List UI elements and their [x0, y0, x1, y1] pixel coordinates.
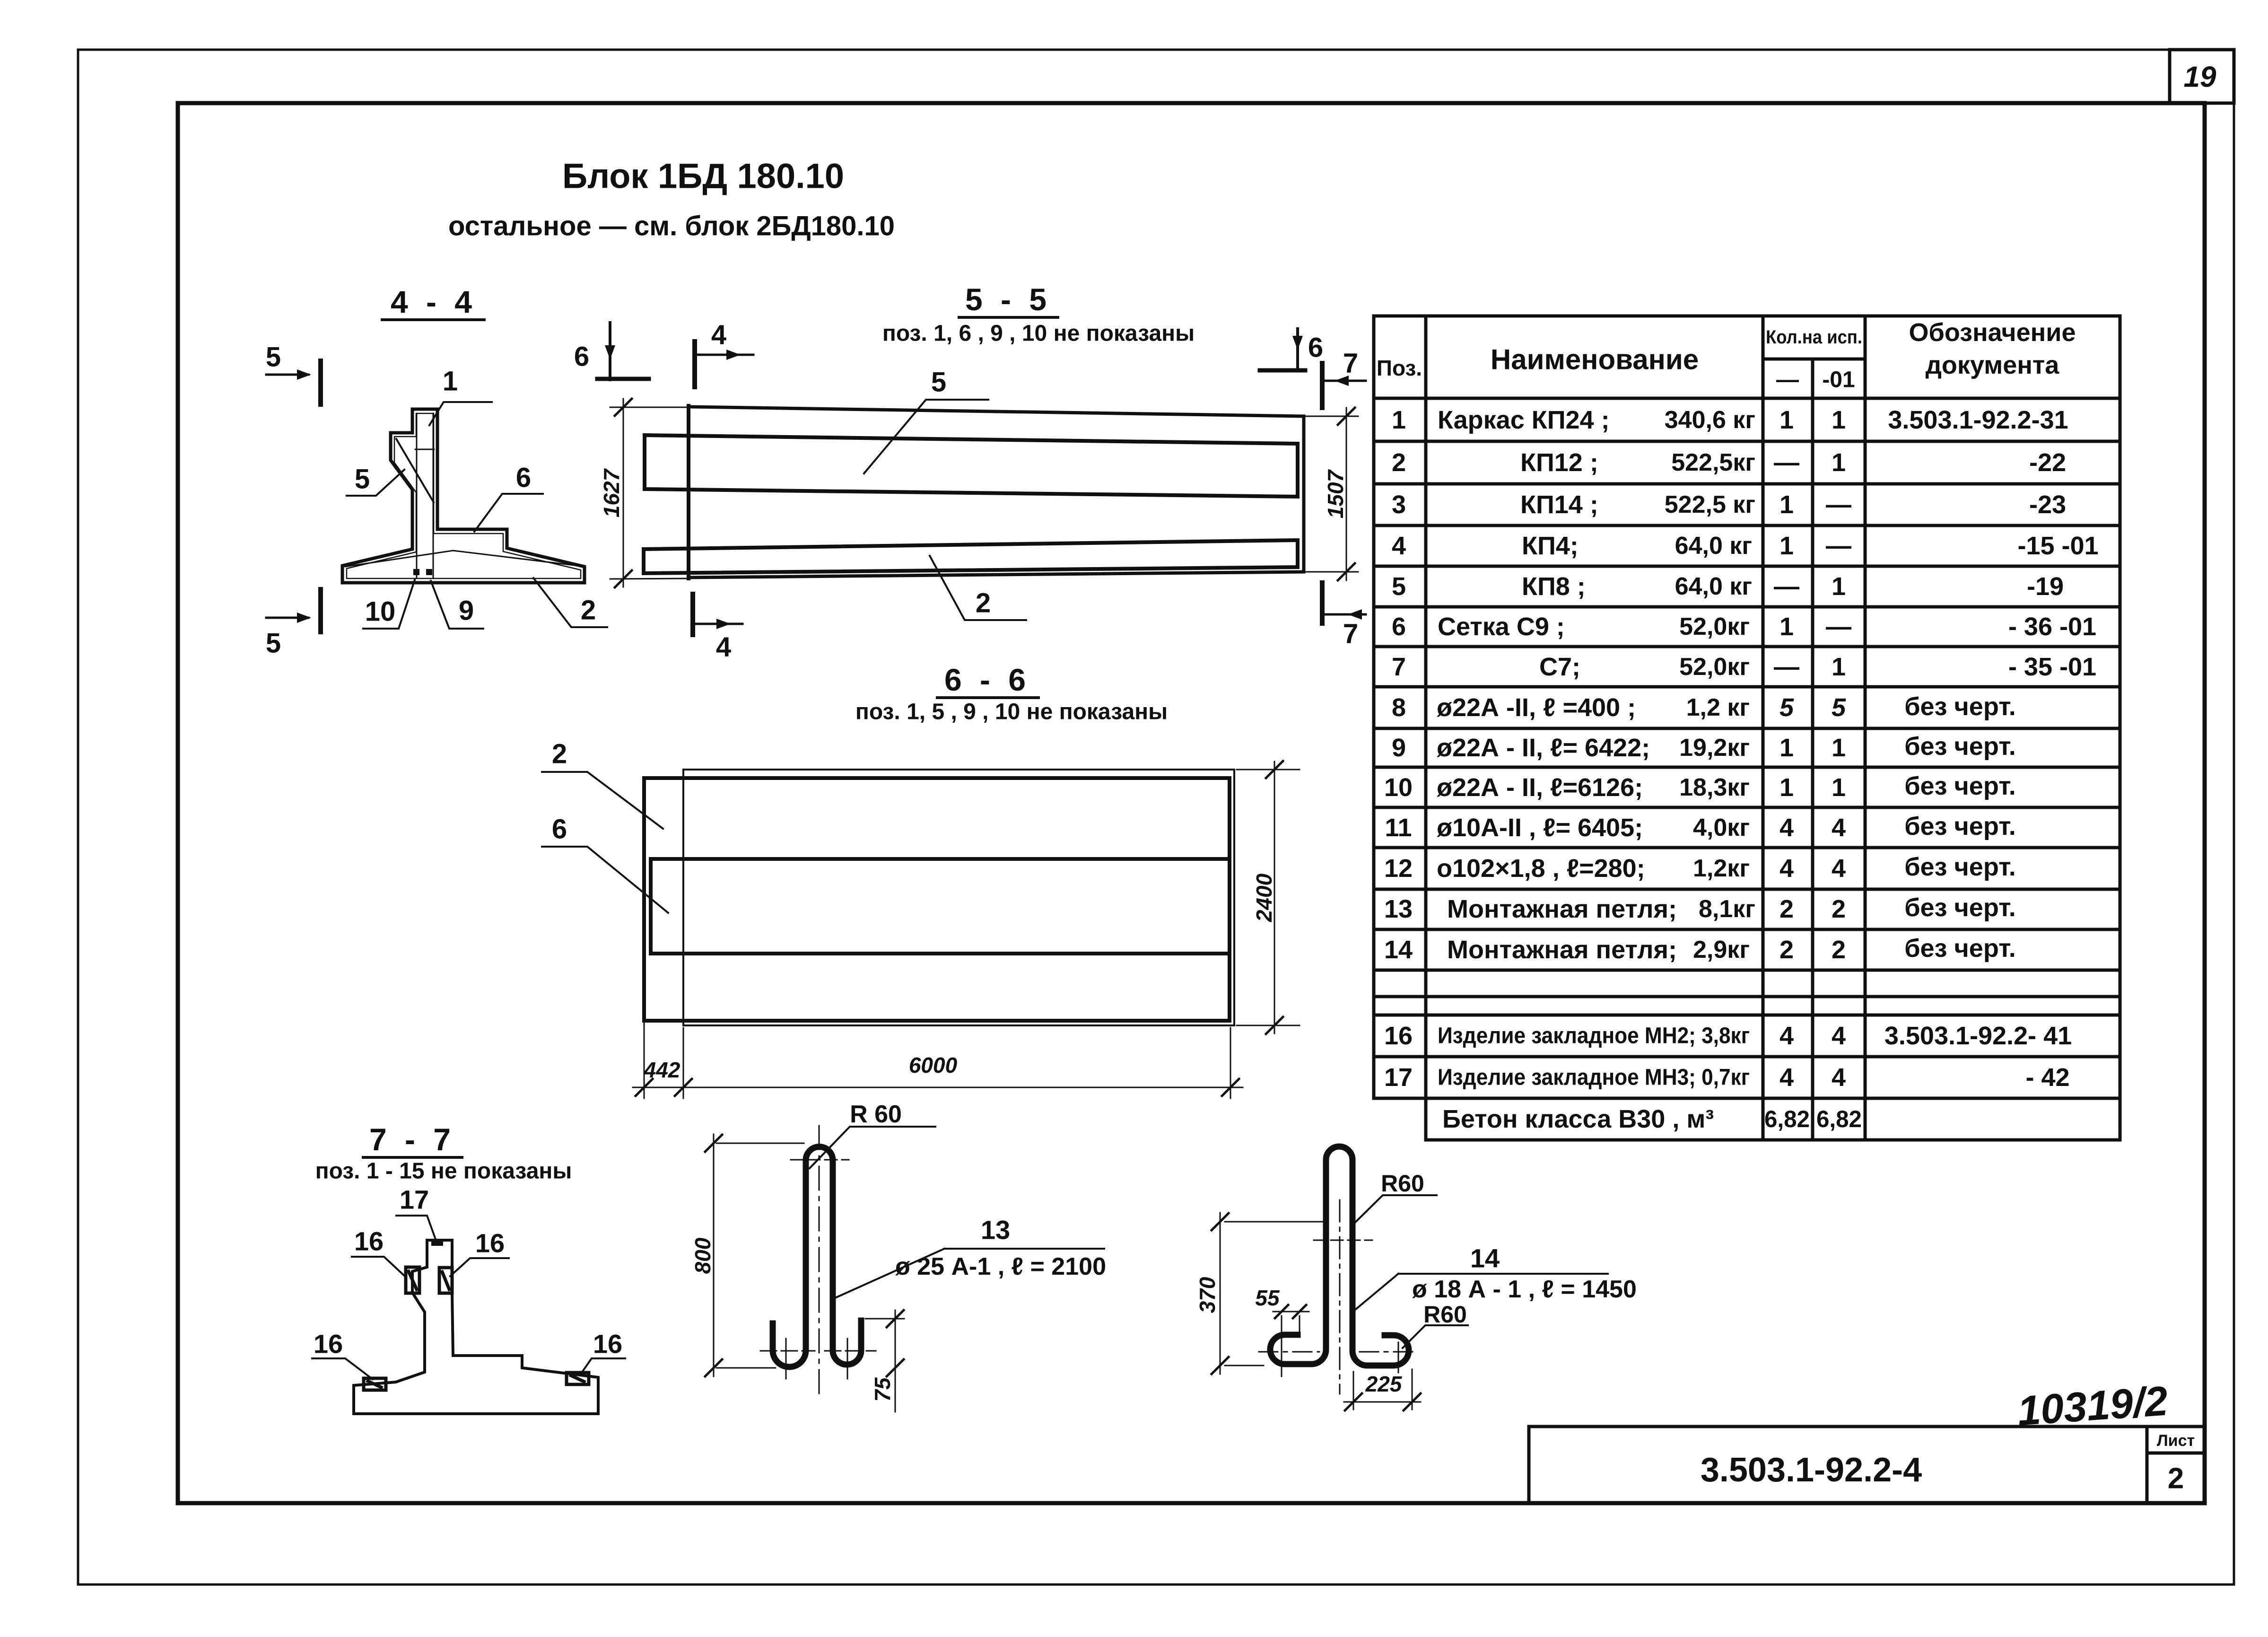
dimension 225 [1344, 1369, 1421, 1410]
svg-text:2: 2 [1780, 936, 1794, 964]
view 4-4 base ridge line [345, 551, 582, 567]
dimension 370 [1212, 1213, 1324, 1374]
view 5-5 title underline [959, 316, 1058, 319]
svg-text:2: 2 [976, 588, 991, 619]
svg-text:Поз.: Поз. [1377, 356, 1422, 380]
svg-text:64,0 кг: 64,0 кг [1675, 573, 1752, 600]
svg-text:6: 6 [516, 463, 531, 493]
title block divider [2146, 1427, 2149, 1503]
row line 7 [1374, 685, 2120, 689]
svg-text:16: 16 [354, 1226, 384, 1256]
svg-text:6,82: 6,82 [1816, 1106, 1862, 1132]
svg-text:14: 14 [1384, 936, 1413, 964]
section mark 5 top [266, 342, 321, 405]
view 5-5 lower bar poz2 [644, 540, 1298, 573]
dimension 2400 [1237, 761, 1300, 1034]
svg-text:2: 2 [2168, 1462, 2184, 1495]
svg-text:КП12 ;: КП12 ; [1520, 448, 1598, 477]
view 6-6 body bold rect [644, 778, 1230, 1021]
svg-text:—: — [1826, 532, 1851, 560]
view 6-6 middle band poz6 [651, 859, 1228, 954]
svg-text:—: — [1774, 653, 1799, 681]
row line 4 [1374, 565, 2120, 568]
svg-text:3.503.1-92.2- 41: 3.503.1-92.2- 41 [1884, 1022, 2072, 1050]
svg-text:5: 5 [1832, 693, 1846, 722]
svg-text:800: 800 [690, 1237, 715, 1274]
svg-text:Каркас КП24 ;: Каркас КП24 ; [1438, 406, 1610, 434]
svg-text:18,3кг: 18,3кг [1679, 774, 1750, 801]
title block Лист divider [2147, 1452, 2205, 1455]
svg-text:1: 1 [443, 366, 458, 397]
svg-text:Монтажная петля;: Монтажная петля; [1447, 936, 1677, 964]
svg-text:4: 4 [1780, 814, 1794, 842]
table left edge [1372, 316, 1376, 1098]
svg-text:13: 13 [1384, 895, 1413, 923]
row line 14 [1374, 969, 2120, 972]
svg-text:1: 1 [1832, 572, 1846, 601]
svg-text:1: 1 [1780, 613, 1794, 641]
lifting loop 13 body [773, 1147, 861, 1367]
section mark 7 bottom [1322, 583, 1366, 649]
svg-text:5: 5 [266, 342, 281, 373]
row line 3 [1374, 524, 2120, 527]
view 4-4 inner contour line [347, 413, 581, 578]
svg-text:без черт.: без черт. [1904, 853, 2016, 881]
col divider Кол mid [1811, 359, 1814, 1140]
view 4-4 corbel diagonal rebar [396, 439, 434, 502]
svg-text:—: — [1774, 572, 1799, 601]
svg-text:-01: -01 [1822, 368, 1855, 393]
loop 14 arc horizontal centerline [1314, 1240, 1372, 1241]
svg-text:Блок 1БД 180.10: Блок 1БД 180.10 [562, 157, 844, 196]
embedded plate MH2 bottom left [364, 1378, 386, 1390]
svg-text:16: 16 [1384, 1022, 1413, 1050]
svg-text:6,82: 6,82 [1764, 1106, 1810, 1132]
col divider Наименование/Кол [1762, 316, 1765, 1140]
row line 17 [1374, 1097, 2120, 1100]
section mark 6 left [574, 323, 649, 380]
svg-text:4: 4 [1832, 854, 1846, 883]
table qty columns [1764, 406, 1862, 1132]
view 5-5 slab outline [689, 407, 1304, 578]
svg-text:без черт.: без черт. [1904, 893, 2016, 922]
svg-text:R 60: R 60 [850, 1101, 902, 1128]
dimension 1627 [610, 399, 690, 587]
svg-text:ø22А -II, ℓ =400 ;: ø22А -II, ℓ =400 ; [1437, 693, 1636, 722]
svg-text:2: 2 [1832, 936, 1846, 964]
row line 8 [1374, 727, 2120, 730]
row line 1 [1374, 440, 2120, 443]
svg-text:5: 5 [355, 464, 370, 495]
svg-text:340,6 кг: 340,6 кг [1665, 406, 1755, 434]
svg-text:370: 370 [1195, 1277, 1220, 1313]
table document designation column [1884, 406, 2099, 1092]
dimension 800 [705, 1134, 804, 1376]
svg-text:7: 7 [1343, 619, 1358, 649]
svg-text:1: 1 [1780, 773, 1794, 802]
svg-text:Изделие закладное МН3; 0,7кг: Изделие закладное МН3; 0,7кг [1438, 1065, 1750, 1090]
svg-text:-22: -22 [2029, 448, 2066, 477]
table position numbers col [1384, 406, 1413, 1092]
svg-text:-15 -01: -15 -01 [2017, 532, 2098, 560]
svg-text:4: 4 [1780, 1022, 1794, 1050]
svg-text:1: 1 [1780, 532, 1794, 560]
svg-text:КП8 ;: КП8 ; [1522, 572, 1586, 601]
section mark 6 right [1260, 329, 1323, 370]
svg-text:1: 1 [1832, 406, 1846, 434]
row line 2 [1374, 482, 2120, 486]
view 6-6 title underline [937, 696, 1038, 699]
row line 16 [1374, 1055, 2120, 1059]
svg-text:4: 4 [1832, 1063, 1846, 1092]
loop 14 hook centerline right [1360, 1351, 1413, 1353]
svg-text:19,2кг: 19,2кг [1679, 734, 1750, 762]
svg-text:64,0 кг: 64,0 кг [1675, 532, 1752, 560]
svg-text:2: 2 [581, 595, 596, 626]
svg-text:17: 17 [400, 1185, 429, 1215]
svg-text:1: 1 [1780, 490, 1794, 519]
svg-text:6 - 6: 6 - 6 [944, 662, 1030, 697]
svg-text:5 - 5: 5 - 5 [965, 282, 1051, 317]
row line 5 [1374, 605, 2120, 609]
section mark 5 bottom [266, 589, 321, 659]
row line 13 [1374, 928, 2120, 931]
svg-text:o102×1,8 , ℓ=280;: o102×1,8 , ℓ=280; [1437, 854, 1645, 883]
svg-text:4: 4 [716, 632, 731, 663]
svg-text:55: 55 [1255, 1286, 1280, 1310]
svg-text:—: — [1826, 490, 1851, 519]
header bottom line [1374, 397, 2120, 400]
table weight subcolumn [1665, 406, 1755, 963]
embedded plate MH3 top [431, 1240, 443, 1246]
view 4-4 stem rebar verticals [416, 413, 418, 578]
svg-text:225: 225 [1365, 1372, 1403, 1396]
svg-text:Кол.на исп.: Кол.на исп. [1766, 327, 1862, 348]
svg-text:6: 6 [1308, 333, 1323, 363]
inner drawing frame [178, 103, 2205, 1503]
svg-text:без черт.: без черт. [1904, 812, 2016, 840]
col divider Поз/Наименование [1424, 316, 1428, 1140]
svg-text:5: 5 [1780, 693, 1794, 722]
svg-text:14: 14 [1470, 1243, 1500, 1273]
svg-text:1: 1 [1832, 773, 1846, 802]
view 4-4 title underline [382, 318, 484, 321]
svg-text:2: 2 [1392, 448, 1406, 477]
svg-text:без черт.: без черт. [1904, 934, 2016, 963]
svg-text:2: 2 [1780, 895, 1794, 923]
svg-text:12: 12 [1384, 854, 1413, 883]
svg-text:1: 1 [1392, 406, 1406, 434]
svg-text:10: 10 [365, 596, 396, 627]
svg-text:поз. 1, 6 , 9 , 10 не показа: поз. 1, 6 , 9 , 10 не показаны [882, 321, 1195, 346]
svg-text:5: 5 [266, 628, 281, 659]
svg-text:1,2кг: 1,2кг [1693, 855, 1750, 882]
svg-text:ø22А - II, ℓ=6126;: ø22А - II, ℓ=6126; [1437, 773, 1643, 802]
header sub line [1763, 358, 1865, 361]
svg-text:9: 9 [1392, 734, 1406, 762]
svg-text:1,2 кг: 1,2 кг [1686, 694, 1750, 721]
svg-text:4,0кг: 4,0кг [1693, 814, 1750, 841]
parts table grid [1374, 316, 2120, 1140]
title block frame [1529, 1427, 2205, 1503]
dimension line bottom 6-6 [633, 1087, 1243, 1088]
loop 13 hook centerlines [785, 1339, 787, 1379]
view 7-7 title underline [363, 1156, 462, 1159]
loop 14 centerline vertical [1339, 1200, 1341, 1394]
svg-text:Изделие закладное МН2; 3,8кг: Изделие закладное МН2; 3,8кг [1438, 1024, 1750, 1049]
section mark 4 bottom [693, 594, 742, 663]
svg-text:2: 2 [1832, 895, 1846, 923]
svg-text:R60: R60 [1381, 1170, 1424, 1197]
svg-text:6: 6 [1392, 613, 1406, 641]
svg-text:16: 16 [314, 1329, 343, 1359]
dimension 55 [1273, 1305, 1309, 1376]
svg-text:7 - 7: 7 - 7 [369, 1122, 455, 1157]
svg-text:ø22А - II, ℓ= 6422;: ø22А - II, ℓ= 6422; [1437, 734, 1650, 762]
svg-text:7: 7 [1343, 348, 1358, 379]
svg-text:1627: 1627 [599, 468, 624, 517]
embedded plate MH2 right [439, 1268, 452, 1293]
svg-text:2,9кг: 2,9кг [1693, 936, 1750, 963]
svg-text:5: 5 [1392, 572, 1406, 601]
svg-text:остальное — см. блок 2БД180.1: остальное — см. блок 2БД180.10 [448, 211, 895, 242]
row line 11 [1374, 846, 2120, 849]
row line 9 [1374, 766, 2120, 769]
svg-text:9: 9 [459, 595, 474, 626]
svg-text:17: 17 [1384, 1063, 1413, 1092]
lifting loop 14 body [1270, 1147, 1409, 1366]
svg-text:1: 1 [1832, 448, 1846, 477]
svg-text:13: 13 [981, 1215, 1010, 1245]
svg-text:4: 4 [1780, 1063, 1794, 1092]
view 4-4 rebar dot 10 [413, 569, 419, 575]
svg-text:5: 5 [931, 367, 946, 398]
embedded plate MH2 left [406, 1267, 419, 1293]
table bottom [1426, 1138, 2120, 1142]
svg-text:ø 18 А - 1 , ℓ = 1450: ø 18 А - 1 , ℓ = 1450 [1412, 1276, 1637, 1303]
row line empty1 [1374, 995, 2120, 998]
svg-text:8: 8 [1392, 693, 1406, 722]
svg-text:522,5 кг: 522,5 кг [1665, 491, 1755, 518]
svg-text:442: 442 [644, 1058, 680, 1082]
svg-text:10: 10 [1384, 773, 1413, 802]
svg-text:- 36 -01: - 36 -01 [2008, 613, 2096, 641]
svg-text:52,0кг: 52,0кг [1679, 653, 1750, 681]
svg-text:без черт.: без черт. [1904, 692, 2016, 721]
svg-text:4: 4 [711, 320, 726, 350]
svg-text:4: 4 [1832, 814, 1846, 842]
svg-text:11: 11 [1385, 814, 1412, 842]
svg-text:19: 19 [2184, 61, 2216, 94]
svg-text:КП4;: КП4; [1522, 532, 1579, 560]
svg-text:-23: -23 [2029, 490, 2066, 519]
row line empty2 [1374, 1014, 2120, 1017]
svg-text:—: — [1774, 448, 1799, 477]
view 7-7 contour [354, 1240, 598, 1414]
svg-text:3.503.1-92.2-4: 3.503.1-92.2-4 [1701, 1451, 1922, 1489]
svg-text:ø10А-II , ℓ= 6405;: ø10А-II , ℓ= 6405; [1437, 814, 1643, 842]
svg-text:6000: 6000 [909, 1053, 958, 1077]
view 5-5 cut line left edge bold [687, 406, 690, 578]
svg-text:4 - 4: 4 - 4 [391, 284, 477, 319]
svg-text:1: 1 [1780, 734, 1794, 762]
svg-text:документа: документа [1926, 351, 2060, 379]
svg-text:4: 4 [1780, 854, 1794, 883]
svg-text:поз. 1, 5 , 9 , 10 не показа: поз. 1, 5 , 9 , 10 не показаны [855, 700, 1168, 725]
svg-text:поз. 1 - 15 не показаны: поз. 1 - 15 не показаны [315, 1159, 572, 1184]
svg-text:- 42: - 42 [2025, 1063, 2069, 1092]
col divider Кол/Обозначение [1864, 316, 1867, 1140]
section mark 4 top [695, 320, 753, 387]
svg-text:—: — [1826, 613, 1851, 641]
svg-text:16: 16 [475, 1228, 505, 1258]
svg-text:Бетон класса В30 , м³: Бетон класса В30 , м³ [1442, 1105, 1714, 1133]
dimension 442 and 6000 extension lines [633, 1023, 1243, 1098]
svg-text:16: 16 [593, 1329, 622, 1359]
svg-text:2: 2 [552, 739, 567, 770]
svg-text:С7;: С7; [1539, 653, 1580, 681]
svg-text:R60: R60 [1423, 1301, 1467, 1328]
svg-text:Обозначение: Обозначение [1909, 318, 2076, 347]
embedded plate MH2 bottom right [567, 1373, 589, 1384]
svg-text:КП14 ;: КП14 ; [1520, 490, 1598, 519]
svg-text:75: 75 [870, 1377, 895, 1402]
dimension 1507 [1306, 408, 1358, 580]
svg-text:3: 3 [1392, 490, 1406, 519]
loop 13 centerline vertical [819, 1126, 820, 1395]
view 4-4 rebar dot 9 [426, 569, 432, 575]
svg-text:Сетка С9 ;: Сетка С9 ; [1438, 613, 1565, 641]
svg-text:8,1кг: 8,1кг [1699, 895, 1755, 923]
row line 10 [1374, 806, 2120, 809]
svg-text:Монтажная петля;: Монтажная петля; [1447, 895, 1677, 923]
svg-text:1: 1 [1832, 734, 1846, 762]
svg-text:3.503.1-92.2-31: 3.503.1-92.2-31 [1888, 406, 2068, 434]
svg-text:1: 1 [1780, 406, 1794, 434]
svg-text:—: — [1776, 368, 1799, 393]
svg-text:4: 4 [1832, 1022, 1846, 1050]
loop 14 hook center vertical right [1398, 1342, 1399, 1373]
table right edge [2119, 316, 2122, 1140]
table header texts [1377, 318, 2076, 393]
loop 13 arc horizontal centerline [791, 1159, 849, 1161]
svg-text:без черт.: без черт. [1904, 772, 2016, 800]
svg-text:7: 7 [1392, 653, 1406, 681]
view 6-6 cut outline thin rect [683, 770, 1234, 1025]
svg-text:2400: 2400 [1252, 873, 1276, 922]
svg-text:ø 25 А-1 , ℓ = 2100: ø 25 А-1 , ℓ = 2100 [895, 1253, 1106, 1280]
svg-text:1507: 1507 [1323, 469, 1348, 518]
svg-text:без черт.: без черт. [1904, 732, 2016, 761]
svg-text:6: 6 [552, 814, 567, 845]
table outer top [1374, 315, 2120, 318]
view 4-4 stem crossbar [415, 449, 434, 450]
svg-text:Лист: Лист [2157, 1432, 2195, 1450]
svg-text:-19: -19 [2027, 572, 2064, 601]
view 4-4 outer contour [342, 409, 584, 583]
svg-text:- 35 -01: - 35 -01 [2008, 653, 2096, 681]
row line 12 [1374, 888, 2120, 891]
svg-text:522,5кг: 522,5кг [1671, 449, 1755, 476]
loop 14 hook centerline left [1259, 1351, 1319, 1353]
svg-text:52,0кг: 52,0кг [1679, 613, 1750, 640]
dimension 75 [865, 1310, 904, 1412]
row line 6 [1374, 645, 2120, 648]
svg-text:6: 6 [574, 341, 589, 372]
svg-text:Наименование: Наименование [1491, 344, 1699, 376]
section mark 7 top [1322, 348, 1366, 408]
view 5-5 upper bar poz5 [645, 435, 1298, 497]
table name column [1437, 406, 1750, 1133]
svg-text:4: 4 [1392, 532, 1406, 560]
svg-text:1: 1 [1832, 653, 1846, 681]
page number box 19 [2170, 50, 2234, 103]
